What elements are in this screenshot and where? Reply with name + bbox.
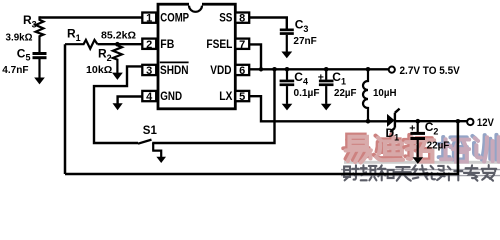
resistor R1	[65, 40, 98, 49]
svg-text:C2: C2	[425, 120, 439, 136]
watermark strikethrough lines	[341, 170, 500, 176]
pin 7 box	[235, 39, 249, 49]
watermark big char yi	[343, 135, 371, 163]
node FB junction	[115, 42, 120, 47]
wire GND pin to ground	[118, 97, 143, 104]
svg-text:1: 1	[146, 13, 152, 25]
svg-text:27nF: 27nF	[293, 36, 316, 47]
capacitor C2	[410, 121, 425, 157]
pin 3 box	[142, 65, 156, 75]
svg-text:GND: GND	[160, 89, 182, 103]
slogan char ji	[448, 165, 463, 180]
node inductor bottom junction	[366, 119, 371, 124]
resistor R2	[113, 44, 122, 73]
capacitor C4	[280, 69, 295, 104]
ground arrow below pin 4	[113, 103, 123, 110]
ground arrow below R2	[112, 73, 123, 80]
resistor R3	[36, 16, 44, 52]
slogan char tian	[395, 167, 411, 181]
slogan char xian	[413, 165, 428, 179]
svg-text:COMP: COMP	[160, 11, 189, 25]
svg-text:3.9kΩ: 3.9kΩ	[6, 33, 33, 44]
wire 12V rail	[396, 120, 467, 122]
svg-text:R2: R2	[98, 46, 112, 62]
svg-text:R1: R1	[67, 27, 81, 43]
wire S1 ground hook	[152, 143, 161, 157]
slogan char pin	[361, 165, 377, 180]
pin 1 box	[142, 13, 156, 23]
wire S1 right segment up to VDD rail	[152, 69, 274, 143]
svg-text:+: +	[409, 123, 415, 135]
svg-text:2: 2	[146, 39, 152, 51]
svg-text:7: 7	[239, 39, 245, 51]
wire SHDN to switch S1	[94, 66, 142, 143]
svg-text:FSEL: FSEL	[206, 37, 232, 51]
slogan char zhuan	[464, 165, 479, 180]
wire SS pin to C3	[249, 18, 287, 29]
wire R1 left vertical to bottom rail	[64, 44, 67, 174]
IC U1 body (8-pin boost converter)	[158, 4, 235, 109]
svg-text:+: +	[318, 71, 324, 83]
watermark big char pei	[439, 137, 469, 162]
ground arrow below C1	[321, 104, 332, 111]
svg-text:D1: D1	[386, 126, 400, 142]
ground arrow below C4	[282, 104, 293, 111]
pin 6 box	[235, 65, 249, 75]
diode D1	[387, 109, 400, 132]
slogan char she	[344, 165, 359, 180]
node feedback tap	[456, 119, 461, 124]
slogan char he	[378, 165, 394, 180]
terminal output circle	[467, 119, 473, 125]
watermark big char xun	[472, 135, 498, 162]
IC notch	[189, 3, 202, 12]
capacitor C5	[33, 52, 47, 59]
svg-text:VDD: VDD	[210, 63, 232, 77]
node S1 branch on VDD rail	[272, 67, 277, 72]
svg-text:6: 6	[239, 65, 245, 77]
wire FB line	[98, 43, 143, 45]
node C2 tap	[416, 119, 421, 124]
ground arrow below S1	[156, 157, 166, 163]
wire FSEL pin down to VDD rail	[249, 44, 261, 69]
svg-text:5: 5	[239, 91, 245, 103]
svg-text:SHDN: SHDN	[160, 63, 189, 77]
pin 5 box	[235, 91, 249, 101]
watermark big char tuo	[404, 135, 434, 162]
svg-text:S1: S1	[143, 125, 158, 137]
watermark big char di	[374, 135, 403, 161]
svg-text:FB: FB	[160, 37, 174, 51]
watermark shadow bar	[344, 161, 500, 164]
ground arrow below C2	[413, 157, 424, 164]
svg-text:4.7nF: 4.7nF	[2, 65, 28, 76]
node inductor top tap	[366, 67, 371, 72]
svg-text:C3: C3	[295, 17, 309, 33]
pin 4 box	[142, 91, 156, 101]
ground arrow below C3	[281, 52, 292, 59]
svg-text:22µF: 22µF	[334, 88, 357, 99]
svg-text:C1: C1	[332, 70, 346, 86]
node C1 tap	[324, 67, 329, 72]
svg-text:8: 8	[239, 13, 245, 25]
svg-text:12V: 12V	[477, 117, 495, 129]
node FSEL tie on VDD rail	[259, 67, 263, 71]
SHDN overline	[160, 61, 189, 63]
svg-text:85.2kΩ: 85.2kΩ	[101, 30, 136, 42]
pin 8 box	[235, 13, 249, 23]
svg-text:0.1µF: 0.1µF	[294, 88, 320, 99]
capacitor C1	[319, 69, 334, 104]
svg-text:C4: C4	[294, 70, 308, 86]
svg-text:SS: SS	[219, 11, 232, 25]
svg-text:10kΩ: 10kΩ	[86, 65, 112, 76]
terminal input circle	[389, 67, 395, 73]
wire LX to diode	[249, 96, 387, 121]
svg-text:LX: LX	[219, 89, 232, 103]
wire C3 to ground	[286, 35, 288, 52]
ground arrow below C5	[34, 78, 45, 85]
wire VDD rail	[249, 68, 389, 70]
svg-text:3: 3	[146, 65, 152, 77]
svg-text:C5: C5	[17, 46, 31, 62]
wire feedback down and bottom rail	[65, 121, 458, 174]
svg-text:R3: R3	[23, 13, 37, 29]
watermark slogan glyphs	[344, 165, 496, 181]
wire COMP line from R3 top to pin 1	[40, 16, 143, 18]
capacitor C3	[280, 29, 294, 35]
inductor L1 10uH	[363, 69, 368, 121]
svg-text:22µF: 22µF	[427, 140, 450, 151]
wire C5 to ground	[38, 59, 40, 78]
svg-text:4: 4	[146, 91, 153, 103]
slogan char jia	[482, 165, 497, 181]
pin 2 box	[142, 39, 156, 49]
node C4 tap	[285, 67, 290, 72]
svg-text:2.7V TO 5.5V: 2.7V TO 5.5V	[400, 65, 461, 77]
svg-text:10µH: 10µH	[373, 88, 397, 99]
slogan char she2	[431, 166, 445, 180]
switch S1 arm	[138, 140, 152, 144]
